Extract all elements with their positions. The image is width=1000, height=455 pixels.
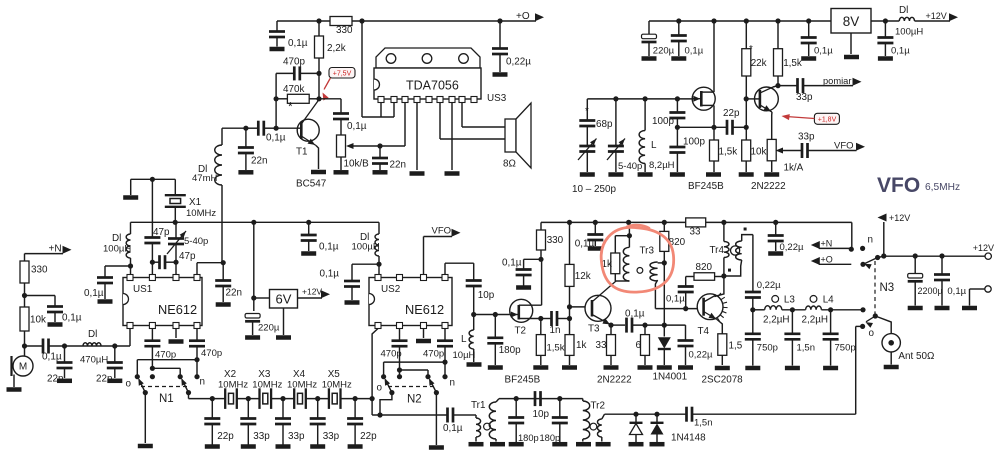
capacitor 22n (volume) <box>372 146 406 171</box>
svg-text:T3: T3 <box>588 324 600 335</box>
capacitor 0,1u (8V out) <box>877 21 910 57</box>
svg-text:VFO: VFO <box>432 226 452 237</box>
wire LPF line <box>750 307 863 312</box>
ground <box>509 442 524 447</box>
ground <box>638 172 653 177</box>
node <box>538 316 543 321</box>
capacitor 22p (filter) <box>347 396 377 445</box>
svg-text:2SC2078: 2SC2078 <box>702 375 744 386</box>
capacitor 22n (pin4) <box>215 263 242 302</box>
node <box>128 263 133 268</box>
wire T2 gate <box>474 314 510 316</box>
svg-text:1,5k: 1,5k <box>547 343 565 354</box>
svg-text:0,1µ: 0,1µ <box>625 309 645 320</box>
svg-text:12k: 12k <box>575 271 591 282</box>
inductor L 10uH <box>453 330 476 362</box>
capacitor 47p (between pins 2,3) <box>150 251 196 269</box>
ground <box>301 251 316 256</box>
svg-text:0,1µ: 0,1µ <box>443 423 463 434</box>
transistor T2 BF245B <box>510 259 542 336</box>
svg-text:Tr2: Tr2 <box>591 401 605 412</box>
diode 1N4001 <box>653 325 688 382</box>
svg-text:10MHz: 10MHz <box>218 380 248 391</box>
capacitor 220u electrolytic <box>245 314 280 336</box>
node <box>654 412 659 417</box>
svg-text:10MHz: 10MHz <box>186 208 216 219</box>
node <box>883 18 888 23</box>
svg-text:470k: 470k <box>283 84 304 95</box>
capacitor 0,22u (rail) <box>492 21 531 72</box>
node <box>881 253 886 258</box>
node <box>643 96 648 101</box>
crystal X5 10MHz <box>322 369 352 409</box>
wire N1 inner link <box>150 366 180 377</box>
wire VFO gate line <box>587 98 692 100</box>
svg-text:100µH: 100µH <box>895 27 923 38</box>
svg-text:33p: 33p <box>253 431 270 442</box>
node <box>744 125 749 130</box>
ground <box>629 442 644 447</box>
ground <box>552 442 567 447</box>
svg-text:Tr4: Tr4 <box>710 245 725 256</box>
svg-text:n: n <box>868 235 874 246</box>
svg-text:180p: 180p <box>540 433 561 443</box>
svg-text:33p: 33p <box>323 431 340 442</box>
ground <box>276 444 291 449</box>
svg-text:o: o <box>869 328 875 339</box>
wire <box>49 345 131 347</box>
svg-text:1,5n: 1,5n <box>797 343 816 354</box>
node <box>112 343 117 348</box>
svg-text:0,22µ: 0,22µ <box>757 280 781 291</box>
capacitor 0,22u (bias) <box>664 325 713 365</box>
svg-text:2N2222: 2N2222 <box>751 181 786 192</box>
ground <box>488 365 503 370</box>
svg-text:0,1µ: 0,1µ <box>947 286 966 297</box>
capacitor 0,1u (US1 supply) <box>84 266 131 299</box>
svg-text:22p: 22p <box>360 431 377 442</box>
terminal +12V <box>973 243 994 259</box>
node <box>316 71 321 76</box>
resistor 33 (T3 emitter) <box>596 325 616 365</box>
ground <box>908 306 923 311</box>
capacitor 180p (left) <box>508 399 538 443</box>
ground <box>429 445 444 450</box>
node <box>613 96 618 101</box>
svg-text:0,1µ: 0,1µ <box>42 352 62 363</box>
capacitor 180p (right) <box>540 399 568 443</box>
potentiometer 10k/B <box>337 135 406 170</box>
ground <box>678 365 693 370</box>
svg-text:10k/B: 10k/B <box>344 159 370 170</box>
ground <box>604 365 619 370</box>
node <box>557 396 562 401</box>
svg-text:NE612: NE612 <box>405 302 444 317</box>
svg-text:US1: US1 <box>133 284 153 295</box>
capacitor 22p (filter) <box>204 396 234 445</box>
capacitor 0,1u (US2 supply) <box>320 264 380 300</box>
svg-text:33p: 33p <box>798 132 815 143</box>
node <box>775 83 780 88</box>
IC US2 NE612 <box>369 275 452 329</box>
label BF245B <box>505 375 541 386</box>
svg-text:Tr1: Tr1 <box>471 400 486 411</box>
node <box>775 18 780 23</box>
node <box>675 96 680 101</box>
switch N3 <box>860 235 894 340</box>
node <box>849 247 854 252</box>
node <box>676 18 681 23</box>
microphone M <box>12 356 34 387</box>
ground <box>348 444 363 449</box>
inductor Dl 100uH (US1 supply choke) <box>103 222 131 274</box>
svg-text:0,1µ: 0,1µ <box>288 38 308 49</box>
capacitor 1,5n (filter) <box>784 310 815 366</box>
transformer Tr2 <box>583 399 605 442</box>
wire T4 emitter <box>717 320 722 334</box>
resistor 330 (mic bias) <box>20 254 48 283</box>
node 6V dropdown junction <box>251 220 256 225</box>
capacitor 220u electrolytic (VFO) <box>642 21 675 57</box>
wire T4 collector <box>715 276 724 297</box>
svg-text:1N4001: 1N4001 <box>653 372 688 383</box>
wire T3 base <box>570 306 593 308</box>
svg-text:100p: 100p <box>683 137 705 148</box>
ground <box>657 365 672 370</box>
node <box>514 396 519 401</box>
crystal X3 10MHz <box>252 369 282 409</box>
svg-text:33: 33 <box>596 340 607 351</box>
ground <box>276 335 291 340</box>
svg-text:47p: 47p <box>179 251 196 262</box>
inductor L4 2,2uH <box>802 295 835 326</box>
ground <box>642 56 657 61</box>
svg-text:22p: 22p <box>217 431 234 442</box>
svg-text:+12V: +12V <box>302 287 322 297</box>
svg-text:470p: 470p <box>381 349 402 360</box>
capacitor 33p (filter) <box>240 396 270 445</box>
ground <box>270 47 285 52</box>
capacitor 1n <box>541 311 570 336</box>
svg-text:pomiar: pomiar <box>823 76 851 86</box>
svg-text:1k: 1k <box>576 340 586 351</box>
wire 470k to base <box>275 99 277 128</box>
svg-text:10MHz: 10MHz <box>322 380 352 391</box>
svg-text:L: L <box>461 334 467 345</box>
svg-text:Dl: Dl <box>112 233 121 244</box>
wire Tr1-Tr2 link <box>499 398 583 400</box>
ground <box>823 366 838 371</box>
diode 1N4148 a <box>630 414 643 442</box>
node bias net <box>662 323 667 328</box>
svg-text:5-40p: 5-40p <box>618 161 642 172</box>
wire relay to antenna <box>875 316 891 334</box>
resistor 1,5k (T2 source) <box>536 319 564 366</box>
ground <box>490 442 505 447</box>
svg-text:X4: X4 <box>293 369 306 380</box>
svg-text:68p: 68p <box>596 119 613 130</box>
capacitor 470p (US2 pin6) <box>381 329 408 377</box>
ground <box>671 56 686 61</box>
svg-text:5-40p: 5-40p <box>184 236 208 247</box>
svg-text:0,1µ: 0,1µ <box>666 294 685 305</box>
antenna socket Ant 50ohm <box>882 334 934 365</box>
svg-text:1,5k: 1,5k <box>783 58 802 69</box>
node rail Tr3 <box>626 220 631 225</box>
svg-text:X3: X3 <box>258 369 271 380</box>
transistor T4 2SC2078 <box>697 293 743 386</box>
transistor VFO JFET BF245B <box>688 21 724 192</box>
transistor T1 BC547 <box>274 100 327 190</box>
inductor Dl 100uH (US2 supply choke) <box>352 222 380 274</box>
svg-text:1,5: 1,5 <box>729 341 743 352</box>
wire <box>24 331 26 356</box>
inductor L 8,2uH (VFO) <box>639 99 675 172</box>
svg-text:US3: US3 <box>487 93 507 104</box>
node <box>711 18 716 23</box>
ground <box>241 444 256 449</box>
svg-text:Dl: Dl <box>899 5 908 16</box>
svg-text:T2: T2 <box>515 326 527 337</box>
wire +12V input arrow <box>878 213 911 256</box>
wire 820 to bias node <box>663 263 665 325</box>
svg-text:10MHz: 10MHz <box>287 380 317 391</box>
capacitor 0,1u (8V in) <box>801 21 834 57</box>
capacitor 180p (T2 gate) <box>487 315 521 366</box>
svg-text:6V: 6V <box>276 292 292 307</box>
wire +O rail <box>277 11 544 22</box>
svg-text:180p: 180p <box>499 345 521 356</box>
ground US1 pin7 <box>169 329 184 344</box>
svg-text:10p: 10p <box>533 409 550 420</box>
capacitor 0,1u (VFO rail) <box>671 21 704 57</box>
wire relay common to +12V line <box>878 256 884 257</box>
wire T4 base <box>655 308 697 310</box>
transistor VFO 2N2222 <box>744 86 786 192</box>
capacitor 0,1u (mic coupling) <box>25 339 62 363</box>
crystal X4 10MHz <box>287 369 317 409</box>
capacitor 750p (a) <box>745 310 778 366</box>
resistor 6 <box>636 325 650 365</box>
callout +7,5V (red) <box>323 68 356 101</box>
capacitor 470p (US1 pin6) <box>144 329 176 369</box>
node +N feed <box>811 239 852 250</box>
svg-text:o: o <box>377 383 383 394</box>
capacitor 68p <box>579 99 613 130</box>
ground <box>493 72 508 77</box>
ground <box>98 299 113 304</box>
wire TDA supply pins <box>362 21 394 117</box>
node <box>377 143 382 148</box>
ground <box>123 195 138 200</box>
capacitor 2200u electrolytic <box>908 256 943 306</box>
svg-text:o: o <box>126 379 132 390</box>
svg-text:+N: +N <box>821 239 833 249</box>
svg-text:8V: 8V <box>843 14 860 29</box>
resistor 1,5 (T4 emitter) <box>718 334 743 365</box>
capacitor 100p (lower) <box>669 127 705 172</box>
ground <box>768 251 783 256</box>
svg-text:2,2µH: 2,2µH <box>763 315 790 326</box>
terminal minus <box>970 286 992 306</box>
svg-text:X2: X2 <box>224 369 236 380</box>
wire N1 to filter <box>189 393 221 399</box>
node <box>538 257 543 262</box>
ground <box>48 322 63 327</box>
diode 1N4148 b <box>651 414 707 443</box>
svg-text:L: L <box>651 140 657 151</box>
wire to US1 pin5 <box>129 329 131 347</box>
wire X1 top to ground <box>131 179 176 195</box>
ground <box>785 366 800 371</box>
svg-text:22n: 22n <box>251 156 267 167</box>
node mic bias junction <box>22 293 27 298</box>
capacitor 0,1u (T4 bias) <box>666 277 694 312</box>
capacitor 22n (second) <box>96 346 123 385</box>
inductor Dl 47mH <box>192 128 222 263</box>
wire volume to TDA pin3 <box>404 103 406 147</box>
svg-text:470µH: 470µH <box>80 355 108 366</box>
resistor 330 (rail inline) <box>330 17 353 37</box>
ground <box>311 170 326 175</box>
ground <box>245 335 260 340</box>
wire N2 upper link <box>384 360 448 377</box>
svg-text:10MHz: 10MHz <box>252 380 282 391</box>
svg-text:*: * <box>749 44 753 55</box>
IC US1 NE612 <box>123 275 202 329</box>
svg-text:T1: T1 <box>296 147 308 158</box>
svg-text:1,5n: 1,5n <box>694 418 713 429</box>
wire VFO rail <box>649 20 899 22</box>
svg-text:0,1µ: 0,1µ <box>84 288 104 299</box>
wire N2 inner link <box>397 367 428 376</box>
capacitor 0,22u (Tr4 out) <box>745 235 781 310</box>
svg-text:+1,8V: +1,8V <box>818 116 837 123</box>
svg-text:10p: 10p <box>478 290 495 301</box>
svg-text:0,1µ: 0,1µ <box>266 133 286 144</box>
ground US2 pin7 <box>416 329 431 344</box>
ground <box>608 172 623 177</box>
svg-text:n: n <box>450 378 456 389</box>
node <box>493 312 498 317</box>
resistor 820 (T4 bias) <box>686 262 724 280</box>
svg-text:+O: +O <box>821 255 833 265</box>
ground <box>238 170 253 175</box>
capacitor 0,1u (to Tr1) <box>443 408 468 435</box>
svg-text:0,22µ: 0,22µ <box>506 57 531 68</box>
node +O feed <box>811 255 852 266</box>
ground <box>334 170 349 175</box>
capacitor 0,1u (T2/T3 rail) <box>575 220 604 251</box>
inductor Dl 470uH <box>80 329 108 366</box>
capacitor 33p VFO out <box>783 132 865 159</box>
svg-text:0,22µ: 0,22µ <box>689 350 713 361</box>
highlight red circle around Tr3 <box>601 225 673 292</box>
svg-text:Ant 50Ω: Ant 50Ω <box>898 351 934 362</box>
crystal X1 10MHz <box>165 179 217 222</box>
svg-text:X5: X5 <box>328 369 341 380</box>
svg-text:M: M <box>19 362 27 373</box>
ground <box>445 171 460 176</box>
capacitor 470p (US1 pin8) <box>189 329 222 377</box>
ground <box>467 362 482 367</box>
svg-text:220µ: 220µ <box>653 46 675 57</box>
node <box>913 253 918 258</box>
node <box>150 177 155 182</box>
capacitor 0,1u (volume) <box>319 99 367 135</box>
svg-text:+7,5V: +7,5V <box>333 71 352 78</box>
node <box>221 260 226 265</box>
wire RX detector line <box>605 413 686 415</box>
transformer Tr3 primary + 1k damping <box>602 222 633 281</box>
wire 6V ground <box>283 308 285 335</box>
node +N supply arrow <box>25 244 72 255</box>
node <box>306 220 311 225</box>
svg-text:+12V: +12V <box>973 243 994 253</box>
capacitor 33p pomiar out <box>778 76 862 103</box>
svg-text:330: 330 <box>547 235 564 246</box>
svg-text:750p: 750p <box>835 343 856 354</box>
svg-text:N1: N1 <box>159 393 174 405</box>
svg-text:2,2k: 2,2k <box>327 43 346 54</box>
wire +12V distribution <box>884 255 985 257</box>
svg-text:NE612: NE612 <box>158 302 197 317</box>
inductor L3 2,2uH <box>763 295 795 326</box>
node <box>828 307 833 312</box>
svg-text:TDA7056: TDA7056 <box>406 79 459 93</box>
svg-text:100µH: 100µH <box>352 242 380 253</box>
svg-text:2200µ: 2200µ <box>918 286 943 296</box>
wire US2 pin5 to filter and Tr1 <box>370 329 448 416</box>
resistor 12k <box>565 220 591 335</box>
svg-text:VFO: VFO <box>834 141 854 152</box>
ground <box>205 444 220 449</box>
node <box>316 18 321 23</box>
ground <box>57 379 72 384</box>
node <box>939 253 944 258</box>
node <box>633 412 638 417</box>
ground <box>935 306 950 311</box>
svg-text:N2: N2 <box>407 394 422 406</box>
svg-text:VFO: VFO <box>877 174 920 197</box>
wire T2 rail <box>541 221 852 223</box>
crystal X2 10MHz <box>218 369 248 409</box>
svg-text:*: * <box>585 106 589 117</box>
svg-text:33p: 33p <box>288 431 305 442</box>
resistor 820 (Tr3) <box>660 220 686 263</box>
svg-text:6: 6 <box>636 340 642 351</box>
label 2N2222 <box>597 375 632 386</box>
svg-text:0,1µ: 0,1µ <box>319 242 339 253</box>
wire US2 pin4 to 10p <box>445 263 474 280</box>
svg-text:100p: 100p <box>652 116 674 127</box>
svg-text:Dl: Dl <box>88 329 97 340</box>
ground <box>216 302 231 307</box>
svg-text:0,1µ: 0,1µ <box>685 46 704 57</box>
svg-text:8,2µH: 8,2µH <box>649 160 675 171</box>
ground <box>576 442 591 447</box>
svg-text:2,2µH: 2,2µH <box>802 315 829 326</box>
capacitor 33p (filter) <box>275 396 305 445</box>
label VFO 6,5MHz <box>877 174 960 197</box>
switch N1 <box>126 374 206 405</box>
capacitor 0,22u (rail) <box>768 220 804 253</box>
resistor 1,5k (VFO source) <box>710 127 738 172</box>
wire to relay o contact <box>856 326 863 414</box>
svg-text:470p: 470p <box>201 348 222 359</box>
ground <box>138 444 153 449</box>
resistor 33 (rail inline) <box>686 218 706 238</box>
